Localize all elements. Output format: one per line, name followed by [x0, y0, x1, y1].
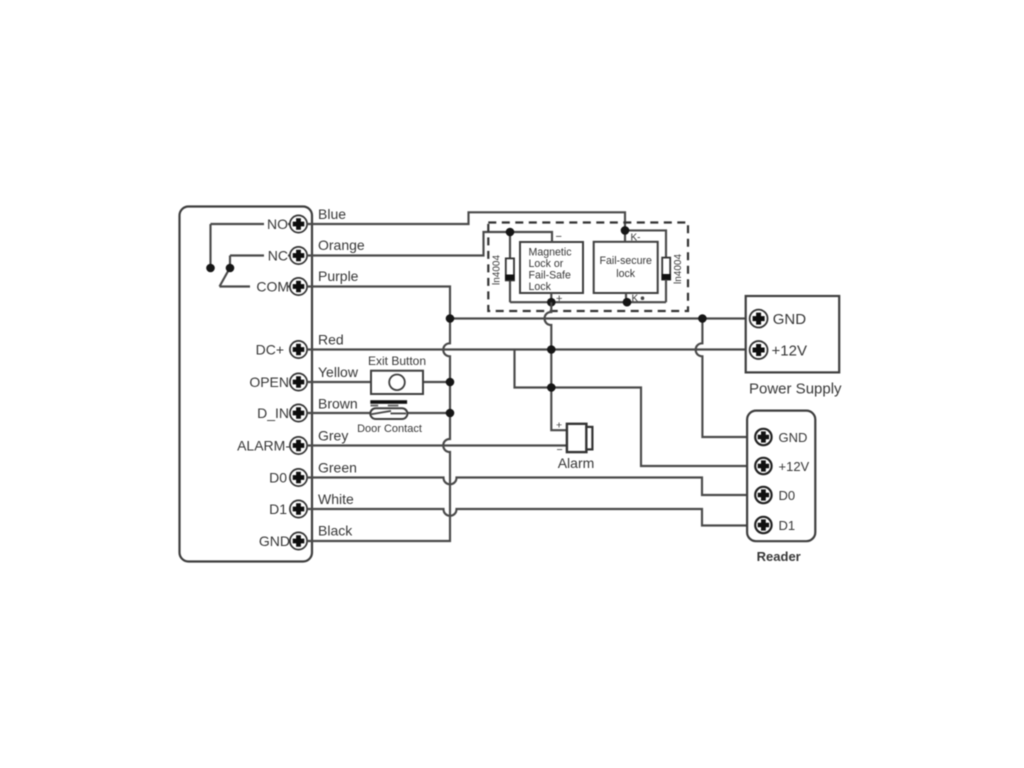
svg-text:D1: D1 — [779, 518, 796, 533]
terminal D_IN — [290, 404, 307, 421]
svg-text:lock: lock — [616, 268, 636, 280]
door contact reed oval — [370, 408, 407, 419]
svg-text:+12V: +12V — [779, 459, 810, 474]
wire Blue — [307, 212, 625, 230]
svg-text:Lock: Lock — [529, 281, 552, 293]
wire NO internal — [211, 224, 291, 268]
wire +12V branch to reader — [551, 388, 755, 467]
svg-text:Magnetic: Magnetic — [529, 247, 573, 259]
wire Purple — [307, 287, 450, 319]
svg-text:ALARM-: ALARM- — [237, 438, 290, 454]
wire magnetic lock minus lead — [510, 232, 552, 242]
svg-text:OPEN: OPEN — [249, 374, 289, 390]
node relay NO — [206, 264, 215, 273]
terminal NO — [290, 215, 307, 232]
svg-text:Green: Green — [318, 460, 357, 476]
label COM — [250, 279, 289, 295]
svg-text:Blue: Blue — [318, 206, 346, 222]
wire lock bottom rail — [510, 301, 666, 303]
svg-text:+: + — [556, 420, 562, 432]
svg-text:K: K — [632, 294, 639, 305]
wire White to reader D1 — [307, 509, 756, 526]
door contact lever — [372, 411, 407, 414]
node brown-black junction — [446, 409, 455, 418]
wire magnetic lock plus lead — [550, 293, 552, 302]
terminal reader D0 — [755, 487, 771, 503]
exit button — [371, 371, 423, 394]
svg-text:Lock or: Lock or — [529, 258, 564, 270]
wire NC internal — [230, 256, 290, 269]
svg-text:Grey: Grey — [318, 428, 348, 444]
wire red branch L — [515, 350, 552, 388]
diode D-right ln4004 — [662, 258, 671, 303]
alarm back part — [586, 427, 592, 450]
terminal PSU GND — [750, 310, 768, 328]
svg-text:Black: Black — [318, 523, 353, 539]
terminal COM — [290, 278, 307, 295]
wire K- top rail to diode right — [625, 230, 666, 257]
svg-text:D0: D0 — [269, 470, 287, 486]
svg-text:Exit Button: Exit Button — [368, 354, 426, 368]
node diode-left junction — [506, 228, 515, 237]
svg-text:Door Contact: Door Contact — [357, 423, 422, 435]
svg-text:NC: NC — [268, 248, 288, 264]
svg-text:ln4004: ln4004 — [492, 255, 503, 285]
wire GND rail to power supply — [450, 317, 750, 319]
diode D-left ln4004 — [505, 232, 514, 302]
terminal reader D1 — [755, 517, 771, 533]
wire fail-secure K+ lead — [625, 293, 627, 302]
node yellow-black junction — [446, 378, 455, 387]
wire lock plus vertical with hop — [545, 302, 567, 430]
terminal ALARM- — [290, 437, 307, 454]
svg-text:Red: Red — [318, 332, 344, 348]
svg-text:D1: D1 — [269, 501, 287, 517]
svg-text:GND: GND — [773, 311, 807, 328]
alarm body — [567, 424, 587, 452]
wire COM internal — [220, 285, 291, 287]
node K+ junction — [623, 298, 632, 307]
terminal NC — [290, 247, 307, 264]
node purple-gnd junction — [446, 314, 455, 323]
label NC — [264, 248, 288, 264]
dashed lock enclosure — [488, 223, 688, 312]
terminal GND (controller) — [290, 532, 307, 549]
svg-text:Fail-secure: Fail-secure — [599, 255, 652, 267]
svg-text:D0: D0 — [779, 488, 796, 503]
svg-text:Purple: Purple — [318, 268, 359, 284]
svg-text:Alarm: Alarm — [558, 455, 595, 471]
svg-text:ln4004: ln4004 — [673, 254, 684, 284]
magnetic lock box — [520, 242, 583, 293]
svg-text:DC+: DC+ — [256, 342, 284, 358]
wire PSU GND to reader GND with hop — [696, 319, 756, 438]
svg-text:NO: NO — [267, 216, 288, 232]
svg-text:Fail-Safe: Fail-Safe — [529, 270, 571, 282]
wire Orange — [307, 232, 510, 256]
wire Grey — [307, 444, 567, 446]
svg-text:K-: K- — [631, 233, 641, 244]
controller box — [180, 207, 313, 562]
wire Brown — [307, 412, 450, 414]
label NO — [264, 216, 288, 232]
node PSU GND branch junction — [698, 314, 707, 323]
svg-text:GND: GND — [779, 430, 808, 445]
wire Black — [307, 319, 450, 542]
svg-text:D_IN: D_IN — [257, 405, 289, 421]
svg-text:White: White — [318, 491, 354, 507]
svg-text:Power Supply: Power Supply — [749, 381, 842, 398]
wire Yellow — [307, 381, 450, 383]
node relay NC — [226, 264, 235, 273]
door contact ticks — [371, 405, 379, 407]
terminal reader +12V — [755, 458, 771, 474]
terminal PSU +12V — [750, 341, 768, 359]
svg-text:Reader: Reader — [757, 549, 801, 564]
terminal DC+ — [290, 341, 307, 358]
reader box — [747, 411, 815, 542]
svg-text:+12V: +12V — [772, 343, 807, 360]
svg-text:GND: GND — [259, 533, 290, 549]
svg-text:Orange: Orange — [318, 237, 365, 253]
terminal OPEN — [290, 373, 307, 390]
power supply box — [746, 296, 840, 372]
svg-text:Yellow: Yellow — [318, 364, 359, 380]
node magnetic lock plus junction — [547, 298, 556, 307]
wire Green to reader D0 — [307, 478, 756, 496]
svg-text:COM: COM — [256, 279, 289, 295]
fail-secure lock box — [594, 242, 658, 293]
terminal reader GND — [755, 429, 771, 445]
wire Red — [307, 348, 750, 350]
node red-lock junction — [547, 345, 556, 354]
terminal D0 — [290, 469, 307, 486]
door contact magnet bar — [370, 400, 407, 404]
wire fail-secure K- lead — [624, 230, 626, 241]
terminal D1 — [290, 500, 307, 517]
node +12V branch junction — [547, 383, 556, 392]
relay lever — [220, 269, 230, 287]
svg-text:−: − — [556, 231, 562, 243]
node K- junction — [621, 226, 630, 235]
svg-text:Brown: Brown — [318, 396, 358, 412]
